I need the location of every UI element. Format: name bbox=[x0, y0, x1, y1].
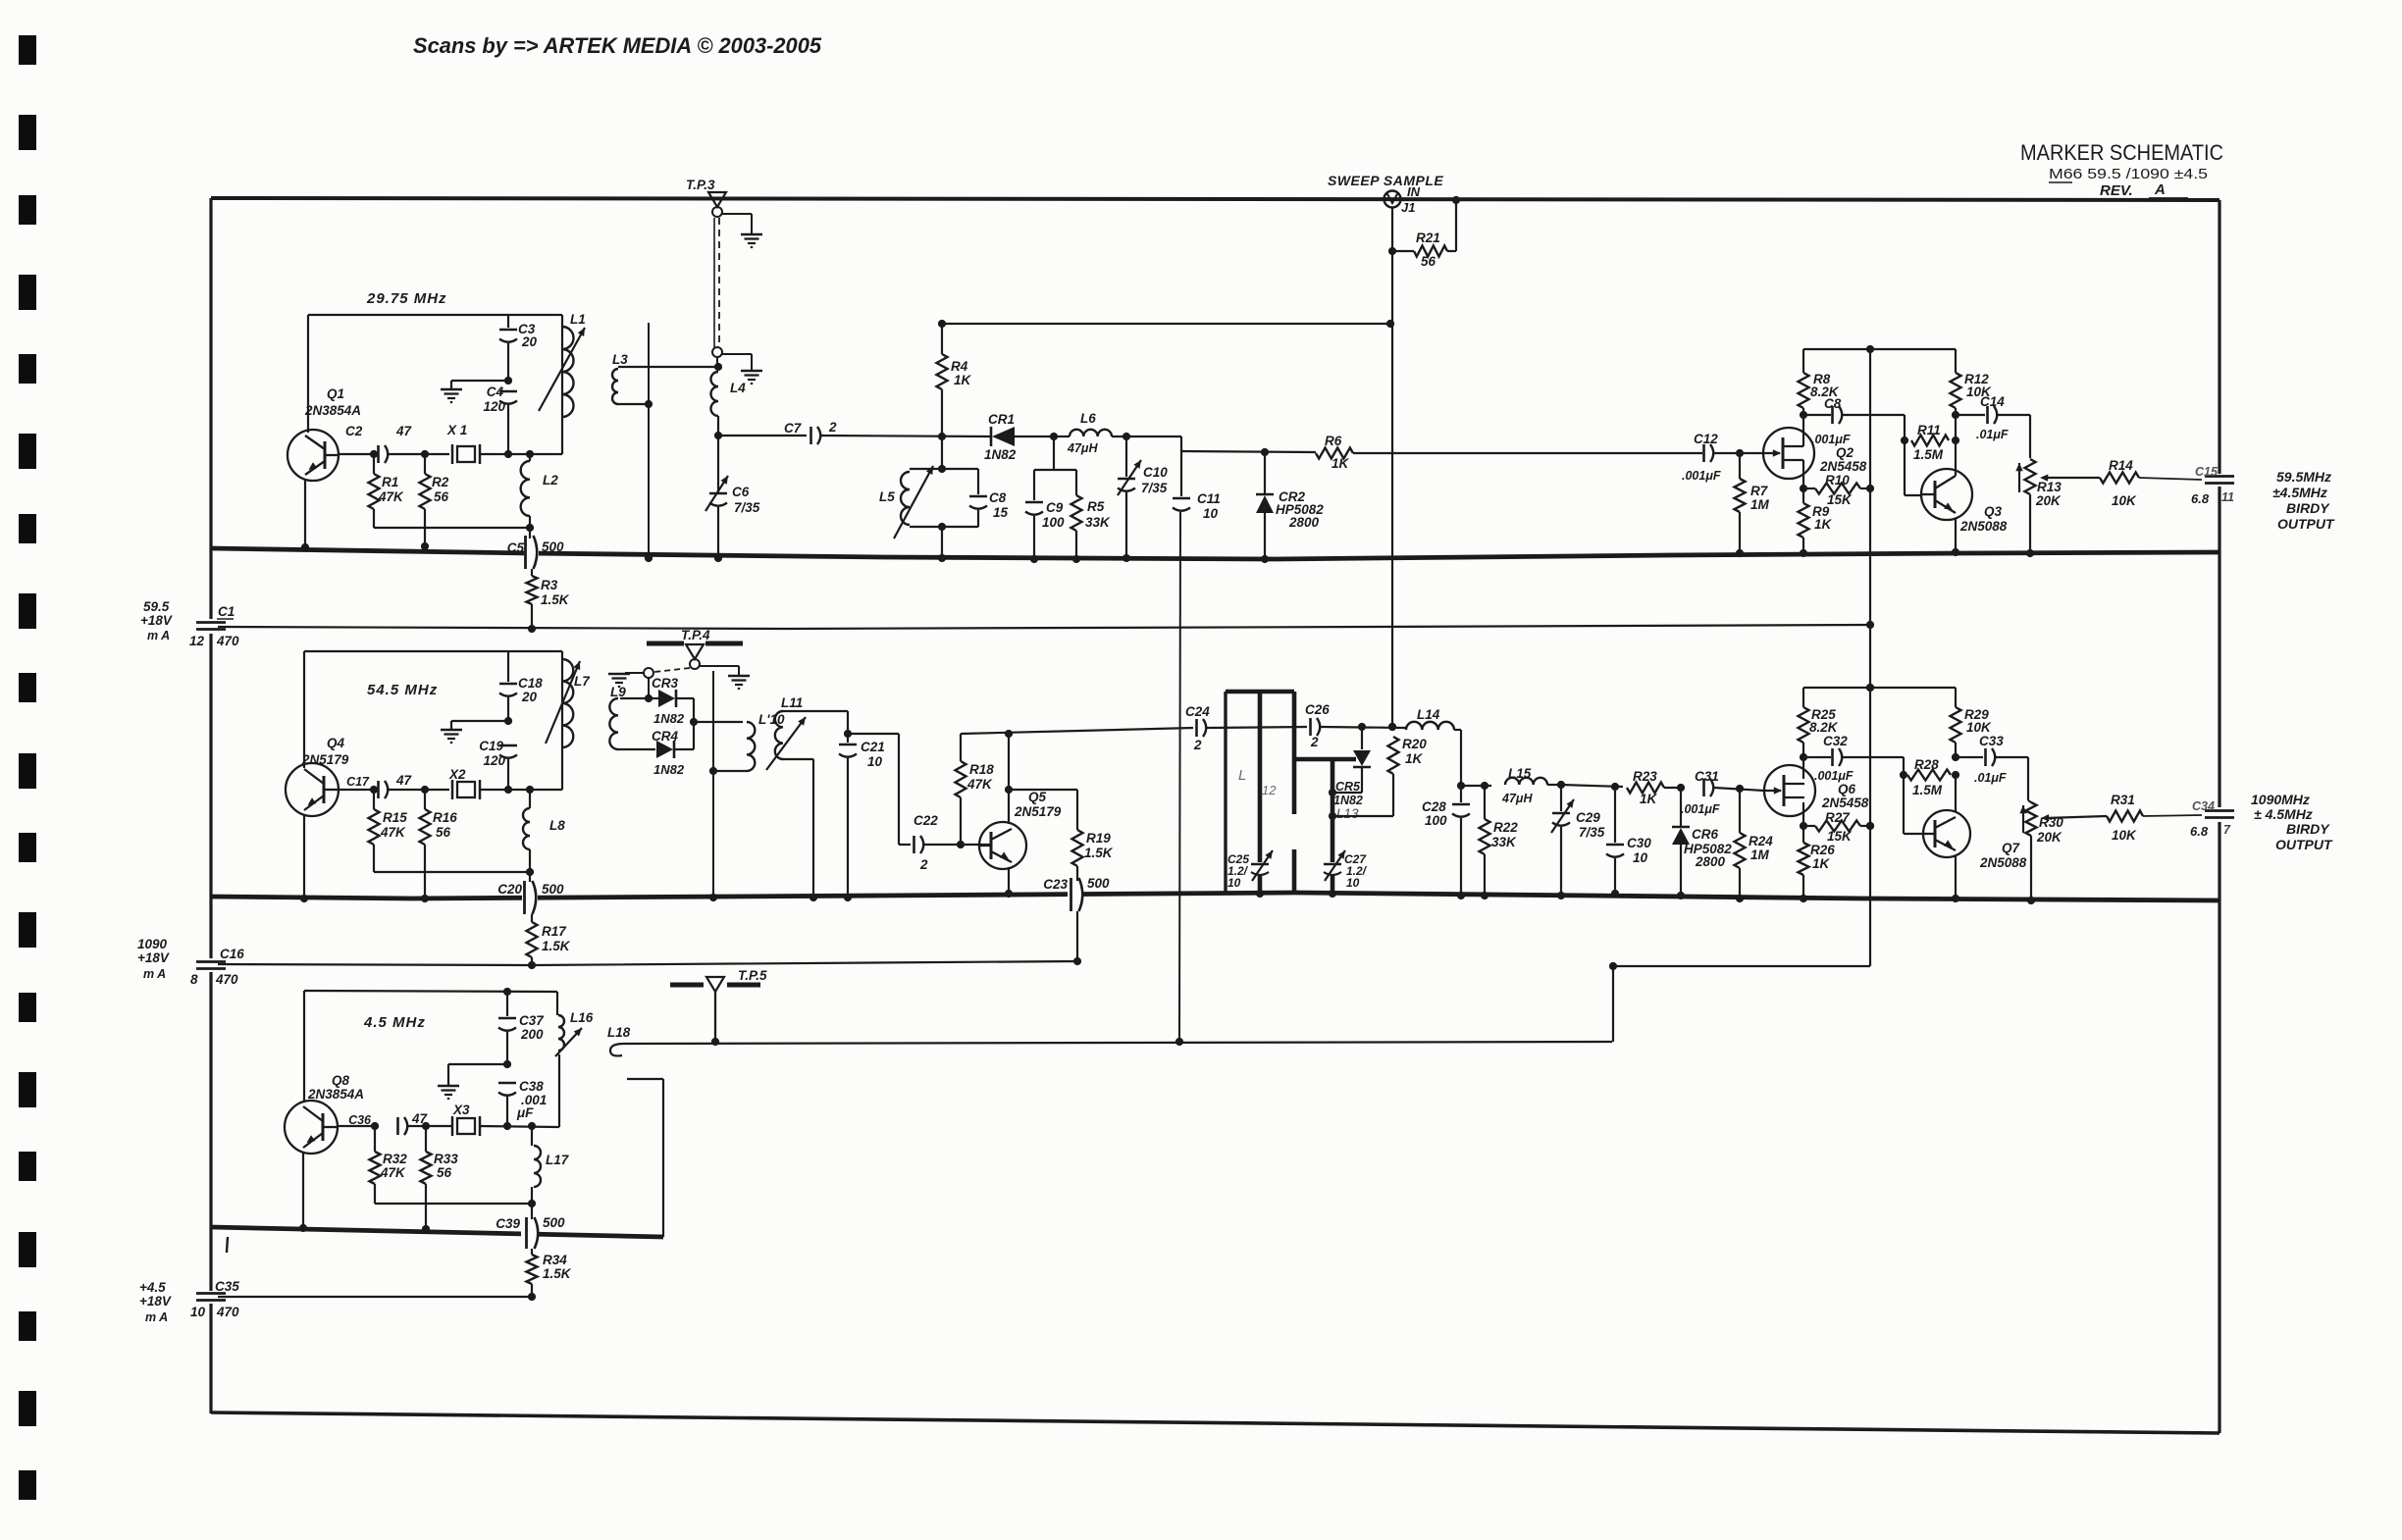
svg-text:10K: 10K bbox=[1966, 720, 1992, 735]
svg-text:7/35: 7/35 bbox=[1579, 825, 1605, 840]
svg-text:IN: IN bbox=[1407, 184, 1421, 199]
svg-text:Q4: Q4 bbox=[327, 736, 345, 750]
svg-text:10: 10 bbox=[1203, 506, 1219, 521]
svg-text:M66 59.5 /1090 ±4.5: M66 59.5 /1090 ±4.5 bbox=[2049, 166, 2208, 182]
svg-text:15: 15 bbox=[993, 505, 1009, 520]
feedthrough capacitor C39 500 bbox=[496, 1204, 565, 1249]
resistor R3 1.5K bbox=[527, 569, 570, 633]
svg-text:56: 56 bbox=[1421, 254, 1436, 269]
svg-text:m A: m A bbox=[145, 1310, 168, 1324]
capacitor C35 470 (feed-through on border) bbox=[190, 1279, 239, 1319]
svg-text:R22: R22 bbox=[1493, 820, 1518, 835]
svg-text:Q8: Q8 bbox=[332, 1073, 350, 1088]
svg-text:C12: C12 bbox=[1694, 432, 1718, 446]
wire Q3 emitter bbox=[1952, 519, 1959, 556]
wire TP3 lower to ground bbox=[722, 354, 752, 370]
wire TP3 to ground bbox=[722, 214, 752, 233]
svg-text:C28: C28 bbox=[1422, 799, 1446, 814]
svg-text:C39: C39 bbox=[496, 1216, 520, 1231]
wire C7 to CR1 node bbox=[821, 433, 991, 440]
+4.5 +18V feed line row 3 (C35 line) bbox=[218, 1296, 535, 1298]
svg-text:2N5088: 2N5088 bbox=[1979, 855, 2027, 870]
bottom border wire bbox=[211, 1412, 2219, 1433]
svg-text:1M: 1M bbox=[1750, 847, 1770, 862]
dashed test lead TP4 bbox=[644, 668, 690, 678]
crystal X1 bbox=[446, 423, 480, 464]
svg-text:OUTPUT: OUTPUT bbox=[2277, 516, 2335, 532]
inductor L6 474uH bbox=[1054, 411, 1181, 455]
resistor R16 56 bbox=[420, 790, 458, 845]
wire to ground left bbox=[625, 672, 644, 674]
resistor R27 15K bbox=[1803, 810, 1874, 844]
svg-text:56: 56 bbox=[434, 489, 449, 504]
svg-text:C29: C29 bbox=[1576, 810, 1600, 825]
ground at L4 top bbox=[741, 370, 762, 372]
svg-text:47K: 47K bbox=[380, 825, 406, 840]
wire C22 to Q5 base bbox=[924, 841, 980, 848]
inductor L16 (variable) bbox=[555, 1010, 594, 1056]
oscillator box Q8 4.5MHz bbox=[304, 991, 557, 1103]
binder punch holes (left edge) bbox=[19, 35, 36, 1500]
svg-text:C30: C30 bbox=[1627, 836, 1651, 850]
capacitor C7 2 bbox=[784, 420, 837, 444]
capacitor C37 200 bbox=[498, 988, 545, 1064]
svg-text:L6: L6 bbox=[1080, 411, 1096, 426]
svg-text:C31: C31 bbox=[1695, 769, 1719, 784]
svg-text:6.8: 6.8 bbox=[2190, 824, 2209, 839]
svg-text:R26: R26 bbox=[1810, 843, 1835, 857]
wire C24 to C26 bbox=[1207, 727, 1307, 728]
feedthrough capacitor C5 500 bbox=[507, 528, 564, 569]
capacitor C25 1.2/10 (variable) bbox=[1227, 850, 1273, 890]
wire R32 bottom bus bbox=[375, 1184, 536, 1207]
wire Q7 collector bbox=[1955, 775, 1957, 811]
long vertical to L18 line bbox=[1179, 512, 1180, 1042]
wire L6 node to R6 line bbox=[1180, 436, 1182, 451]
svg-text:R2: R2 bbox=[432, 475, 449, 489]
svg-text:L17: L17 bbox=[546, 1153, 570, 1167]
inductor L18 bbox=[607, 1025, 631, 1055]
transistor Q7 2N5088 bbox=[1923, 810, 2027, 870]
resistor R2 56 bbox=[420, 454, 449, 509]
svg-text:47K: 47K bbox=[378, 489, 404, 504]
capacitor C36 47 bbox=[348, 1111, 428, 1135]
svg-text:1.5K: 1.5K bbox=[1084, 846, 1114, 860]
inductor L4 bbox=[711, 372, 747, 439]
capacitor C12 .001uF bbox=[1682, 432, 1721, 483]
svg-text:Q2: Q2 bbox=[1836, 445, 1854, 460]
svg-text:2N3854A: 2N3854A bbox=[307, 1087, 364, 1102]
amplifier top rail row1 bbox=[1803, 345, 1956, 353]
+18V distribution vertical bbox=[1869, 350, 1871, 966]
wire X3 to L17 node bbox=[480, 1122, 559, 1130]
svg-text:.001μF: .001μF bbox=[1681, 802, 1720, 816]
svg-text:1N82: 1N82 bbox=[653, 711, 685, 726]
svg-text:+18V: +18V bbox=[137, 950, 170, 965]
crystal X2 bbox=[448, 767, 480, 799]
label 59.5 +18V mA bbox=[140, 599, 173, 642]
capacitor C19 120 bbox=[479, 739, 517, 790]
ground stub row2 osc bbox=[441, 717, 512, 743]
inductor L5 (variable) bbox=[879, 466, 933, 539]
ground at TP3 bbox=[741, 233, 762, 235]
output label 1090MHz birdy bbox=[2251, 792, 2333, 852]
diode CR4 1N82 bbox=[652, 729, 694, 777]
wiper arrow into R30 bbox=[2041, 814, 2107, 821]
svg-text:C2: C2 bbox=[345, 424, 363, 438]
svg-text:L13: L13 bbox=[1336, 806, 1359, 821]
branch C9 R5 bbox=[1034, 436, 1076, 470]
svg-text:7: 7 bbox=[2223, 823, 2231, 837]
svg-text:A: A bbox=[2154, 181, 2166, 198]
wire C23 to feed2 bbox=[1076, 911, 1078, 961]
wire J1 branch right bbox=[1452, 196, 1460, 251]
svg-text:R4: R4 bbox=[951, 359, 968, 374]
capacitor C33 .01uF bbox=[1956, 734, 2028, 785]
capacitor C2 47 bbox=[345, 424, 413, 463]
resistor R34 1.5K bbox=[527, 1249, 572, 1301]
svg-text:C34: C34 bbox=[2192, 799, 2215, 813]
svg-text:R7: R7 bbox=[1750, 484, 1769, 498]
connector J1 SWEEP SAMPLE IN bbox=[1328, 173, 1443, 215]
wire C2 to X1 bbox=[389, 450, 449, 458]
capacitor C29 7/35 (variable) bbox=[1551, 785, 1605, 899]
inductor L17 bbox=[532, 1126, 570, 1204]
resistor R10 15K bbox=[1803, 473, 1874, 507]
wire stub right of L16 bbox=[627, 1079, 663, 1237]
svg-text:56: 56 bbox=[436, 825, 451, 840]
svg-text:.01μF: .01μF bbox=[1976, 428, 2009, 441]
resistor R6 1K bbox=[1316, 434, 1353, 471]
wire C14 to R13 bbox=[2029, 415, 2031, 458]
svg-text:C26: C26 bbox=[1305, 702, 1330, 717]
svg-text:4.5 MHz: 4.5 MHz bbox=[363, 1014, 426, 1031]
resistor R31 10K bbox=[2107, 793, 2143, 843]
diode CR6 HP5082-2800 bbox=[1672, 788, 1732, 899]
wire C33 to R30 bbox=[2027, 757, 2029, 800]
right border wire bbox=[2218, 200, 2220, 1433]
resonator L13 (transmission line) bbox=[1294, 759, 1359, 898]
svg-text:.001μF: .001μF bbox=[1814, 769, 1854, 783]
svg-text:C10: C10 bbox=[1143, 465, 1168, 480]
resistor R7 1M bbox=[1735, 453, 1770, 557]
wire X1 to L-network bbox=[480, 450, 562, 458]
amplifier top rail row2 bbox=[1803, 684, 1956, 692]
capacitor C10 7/35 (variable) bbox=[1118, 436, 1168, 562]
capacitor C11 10 bbox=[1173, 451, 1221, 521]
svg-text:47μH: 47μH bbox=[1501, 792, 1533, 805]
svg-text:R23: R23 bbox=[1633, 769, 1657, 784]
svg-text:BIRDY: BIRDY bbox=[2286, 500, 2330, 516]
svg-text:20: 20 bbox=[521, 334, 538, 349]
svg-text:7/35: 7/35 bbox=[734, 500, 760, 515]
potentiometer R30 20K bbox=[2019, 800, 2063, 904]
inductor L9 bbox=[609, 685, 655, 749]
wire Q4 base node bbox=[339, 786, 378, 794]
title: REV. A bbox=[2100, 181, 2188, 199]
svg-text:C9: C9 bbox=[1046, 500, 1064, 515]
svg-text:C15: C15 bbox=[2195, 465, 2219, 479]
wire Q2 source bbox=[1800, 460, 1807, 492]
wire R4 to sweep line bbox=[938, 320, 1394, 328]
capacitor C1 470 (feed-through on border) bbox=[189, 604, 239, 648]
+18V feed line row 1 (C1 line) bbox=[218, 625, 1870, 629]
svg-text:C22: C22 bbox=[914, 813, 938, 828]
svg-text:1K: 1K bbox=[1812, 856, 1831, 871]
inductor L11 (variable) bbox=[766, 695, 806, 770]
wire L4 to C7 bbox=[718, 435, 807, 436]
svg-text:10: 10 bbox=[1346, 876, 1360, 890]
svg-text:L: L bbox=[1238, 767, 1246, 784]
svg-text:R24: R24 bbox=[1749, 834, 1773, 848]
svg-text:C35: C35 bbox=[215, 1279, 239, 1294]
svg-text:C23: C23 bbox=[1043, 877, 1068, 892]
resistor R33 56 bbox=[421, 1126, 459, 1184]
svg-text:L8: L8 bbox=[549, 818, 565, 833]
svg-text:2: 2 bbox=[919, 857, 928, 872]
svg-text:C6: C6 bbox=[732, 485, 750, 499]
label 1090 +18V mA bbox=[137, 937, 170, 981]
inductor L3 bbox=[612, 352, 718, 404]
wire TP4 to ground bbox=[700, 666, 739, 675]
capacitor C32 .0014F bbox=[1803, 734, 1904, 783]
svg-text:1090: 1090 bbox=[137, 937, 168, 951]
svg-text:29.75 MHz: 29.75 MHz bbox=[366, 290, 447, 307]
capacitor C24 2 bbox=[1185, 704, 1210, 752]
resistor R19 1.5K bbox=[1072, 830, 1114, 866]
capacitor C28 100 bbox=[1422, 786, 1470, 899]
svg-text:59.5MHz: 59.5MHz bbox=[2276, 469, 2331, 485]
svg-text:33K: 33K bbox=[1085, 515, 1111, 530]
svg-text:L15: L15 bbox=[1508, 766, 1532, 781]
transformer core line bbox=[709, 671, 717, 901]
svg-text:C7: C7 bbox=[784, 421, 803, 436]
top border wire bbox=[211, 198, 2219, 200]
transistor Q4 2N5179 bbox=[286, 736, 349, 816]
stray pen tick bbox=[227, 1237, 228, 1253]
svg-text:120: 120 bbox=[483, 753, 505, 768]
transistor Q1 bbox=[287, 386, 361, 481]
capacitor C9 100 bbox=[1025, 470, 1065, 563]
svg-text:L4: L4 bbox=[730, 381, 746, 395]
svg-text:R3: R3 bbox=[541, 578, 558, 592]
svg-text:R15: R15 bbox=[383, 810, 407, 825]
wire C36 to X3 bbox=[408, 1122, 452, 1130]
svg-text:+18V: +18V bbox=[139, 1294, 172, 1309]
wire Q7 base bbox=[1904, 833, 1923, 835]
svg-text:.001μF: .001μF bbox=[1682, 469, 1721, 483]
wire Q3 collector bbox=[1952, 411, 1959, 476]
svg-text:+4.5: +4.5 bbox=[139, 1280, 166, 1295]
svg-text:Q6: Q6 bbox=[1838, 782, 1856, 796]
wire Q1 base node bbox=[339, 450, 378, 458]
diode CR3 1N82 bbox=[649, 676, 694, 726]
svg-text:R32: R32 bbox=[383, 1152, 407, 1166]
wire C31 to Q6 gate bbox=[1714, 785, 1764, 793]
svg-text:R27: R27 bbox=[1825, 810, 1851, 825]
svg-text:CR3: CR3 bbox=[652, 676, 678, 691]
svg-text:47: 47 bbox=[395, 424, 413, 438]
svg-text:1090MHz: 1090MHz bbox=[2251, 792, 2310, 807]
wire R2 to rail bbox=[421, 509, 429, 550]
inductor L15 474uH bbox=[1501, 766, 1565, 805]
wire X2 to L network bbox=[480, 786, 562, 794]
svg-text:20K: 20K bbox=[2035, 493, 2062, 508]
svg-text:1K: 1K bbox=[1814, 517, 1833, 532]
ground left of TP4 bbox=[608, 673, 630, 675]
svg-text:R28: R28 bbox=[1914, 757, 1939, 772]
svg-text:120: 120 bbox=[483, 399, 505, 414]
svg-text:C37: C37 bbox=[519, 1013, 545, 1028]
dashed test lead TP3 bbox=[712, 218, 722, 357]
svg-text:L2: L2 bbox=[543, 473, 558, 488]
svg-text:2: 2 bbox=[828, 420, 837, 435]
svg-text:L1: L1 bbox=[570, 312, 586, 327]
svg-text:10: 10 bbox=[867, 754, 883, 769]
wire Q8 emitter to rail bbox=[299, 1152, 307, 1232]
wire C26 to L14 bbox=[1321, 723, 1406, 731]
svg-text:L9: L9 bbox=[610, 685, 626, 699]
ground stub row1 osc bbox=[441, 377, 512, 402]
wire C17 to X2 bbox=[389, 786, 449, 794]
wire Q1 emitter to rail bbox=[301, 480, 309, 551]
svg-text:1.5K: 1.5K bbox=[541, 592, 570, 607]
svg-text:T.P.5: T.P.5 bbox=[738, 968, 767, 983]
svg-text:1.5K: 1.5K bbox=[542, 939, 571, 953]
svg-text:C32: C32 bbox=[1823, 734, 1848, 748]
svg-text:100: 100 bbox=[1042, 515, 1065, 530]
svg-text:J1: J1 bbox=[1401, 200, 1415, 215]
node TP5 on L18 line bbox=[711, 1038, 719, 1046]
wire R6 line left bbox=[1181, 448, 1316, 456]
svg-text:54.5 MHz: 54.5 MHz bbox=[367, 682, 438, 698]
svg-text:R19: R19 bbox=[1086, 831, 1111, 846]
coupling stub line bbox=[645, 323, 653, 562]
resistor R12 10K bbox=[1951, 349, 1993, 415]
capacitor C8 15 bbox=[969, 469, 1009, 527]
svg-text:470: 470 bbox=[215, 972, 238, 987]
svg-text:C19: C19 bbox=[479, 739, 503, 753]
resistor R9 1K bbox=[1799, 488, 1833, 557]
svg-text:.01μF: .01μF bbox=[1974, 771, 2007, 785]
svg-text:7/35: 7/35 bbox=[1141, 481, 1168, 495]
wire R1 bottom bus bbox=[374, 509, 534, 532]
wire C21 node to C22 bbox=[848, 734, 911, 845]
resistor R1 47K bbox=[369, 454, 405, 509]
wire collector line to C24 bbox=[961, 728, 1193, 734]
inductor L14 bbox=[1406, 707, 1465, 790]
svg-text:C5: C5 bbox=[507, 540, 525, 555]
svg-text:REV.: REV. bbox=[2100, 182, 2133, 199]
svg-text:BIRDY: BIRDY bbox=[2286, 821, 2330, 837]
svg-text:2: 2 bbox=[1310, 735, 1319, 749]
capacitor C38 .001uF bbox=[498, 1079, 547, 1126]
svg-text:L11: L11 bbox=[781, 695, 803, 710]
L18 output line bbox=[624, 1042, 1612, 1044]
svg-text:T.P.4: T.P.4 bbox=[681, 628, 710, 642]
title: model M66 59.5/1090 +-4.5 bbox=[2049, 166, 2208, 182]
svg-text:2N5088: 2N5088 bbox=[1959, 519, 2008, 534]
svg-text:500: 500 bbox=[542, 882, 564, 897]
svg-text:L3: L3 bbox=[612, 352, 628, 367]
wire Q4 emitter to rail bbox=[300, 814, 308, 902]
wire L11 top bbox=[783, 711, 852, 738]
svg-text:47μH: 47μH bbox=[1067, 441, 1098, 455]
svg-text:R18: R18 bbox=[969, 762, 994, 777]
resonator L12 (transmission line) bbox=[1226, 692, 1294, 898]
transistor Q3 2N5088 bbox=[1921, 469, 2008, 534]
section-3 supply rail bbox=[211, 1227, 663, 1237]
feedthrough capacitor C23 500 bbox=[1043, 866, 1110, 911]
resistor R15 47K bbox=[369, 790, 408, 845]
svg-text:Q1: Q1 bbox=[327, 386, 344, 401]
capacitor C22 2 bbox=[914, 813, 938, 872]
wire L11 bottom to rail bbox=[783, 759, 817, 901]
svg-text:2: 2 bbox=[1193, 738, 1202, 752]
svg-text:C36: C36 bbox=[348, 1113, 372, 1127]
svg-text:R10: R10 bbox=[1825, 473, 1850, 488]
oscillator box Q4 54.5MHz bbox=[304, 651, 562, 790]
resistor R18 47K bbox=[956, 734, 995, 845]
wire R16 to rail bbox=[421, 845, 429, 902]
wire Q7 emitter bbox=[1952, 856, 1959, 902]
svg-text:47K: 47K bbox=[966, 777, 993, 792]
svg-text:10: 10 bbox=[1633, 850, 1648, 865]
test point T.P.3 bbox=[686, 178, 726, 217]
svg-text:R16: R16 bbox=[433, 810, 457, 825]
svg-text:56: 56 bbox=[437, 1165, 452, 1180]
svg-text:CR1: CR1 bbox=[988, 412, 1015, 427]
svg-text:2N3854A: 2N3854A bbox=[304, 403, 361, 418]
svg-text:C16: C16 bbox=[220, 947, 244, 961]
svg-text:1K: 1K bbox=[954, 373, 972, 387]
capacitor C8a .001uF bbox=[1803, 396, 1905, 446]
capacitor C31 .0014F bbox=[1681, 769, 1720, 816]
title: MARKER SCHEMATIC bbox=[2020, 140, 2223, 165]
wire Q2 drain bbox=[1800, 411, 1807, 446]
transistor Q5 2N5179 bbox=[979, 790, 1062, 869]
svg-text:+18V: +18V bbox=[140, 613, 173, 628]
svg-text:2N5179: 2N5179 bbox=[301, 752, 349, 767]
svg-text:1.5K: 1.5K bbox=[543, 1266, 572, 1281]
inductor L7 (variable) bbox=[546, 659, 591, 747]
svg-text:L16: L16 bbox=[570, 1010, 594, 1025]
wire R33 to rail bbox=[422, 1184, 430, 1233]
svg-text:R21: R21 bbox=[1416, 231, 1440, 245]
wire C12 to Q2 gate bbox=[1714, 449, 1764, 457]
wire Q5 emitter bbox=[1005, 867, 1013, 898]
svg-text:R1: R1 bbox=[382, 475, 398, 489]
svg-text:L18: L18 bbox=[607, 1025, 631, 1040]
ground right of TP4 bbox=[728, 675, 750, 677]
svg-text:C14: C14 bbox=[1980, 394, 2005, 409]
svg-text:1K: 1K bbox=[1640, 792, 1658, 806]
capacitor C6 7/35 (variable) bbox=[705, 436, 760, 562]
svg-text:C11: C11 bbox=[1197, 491, 1221, 506]
wire Q3 base riser bbox=[1901, 415, 1908, 495]
inductor L10 bbox=[713, 712, 785, 771]
svg-text:T.P.3: T.P.3 bbox=[686, 178, 715, 192]
svg-text:1N82: 1N82 bbox=[984, 447, 1017, 462]
svg-text:CR5: CR5 bbox=[1335, 780, 1361, 794]
wire R15 bottom bus bbox=[374, 845, 534, 876]
capacitor C14 .01uF bbox=[1956, 394, 2030, 441]
capacitor C21 10 bbox=[839, 734, 885, 901]
resistor R29 10K bbox=[1951, 688, 1993, 761]
svg-text:1N82: 1N82 bbox=[653, 762, 685, 777]
svg-text:500: 500 bbox=[1087, 876, 1110, 891]
svg-text:C1: C1 bbox=[218, 604, 235, 619]
